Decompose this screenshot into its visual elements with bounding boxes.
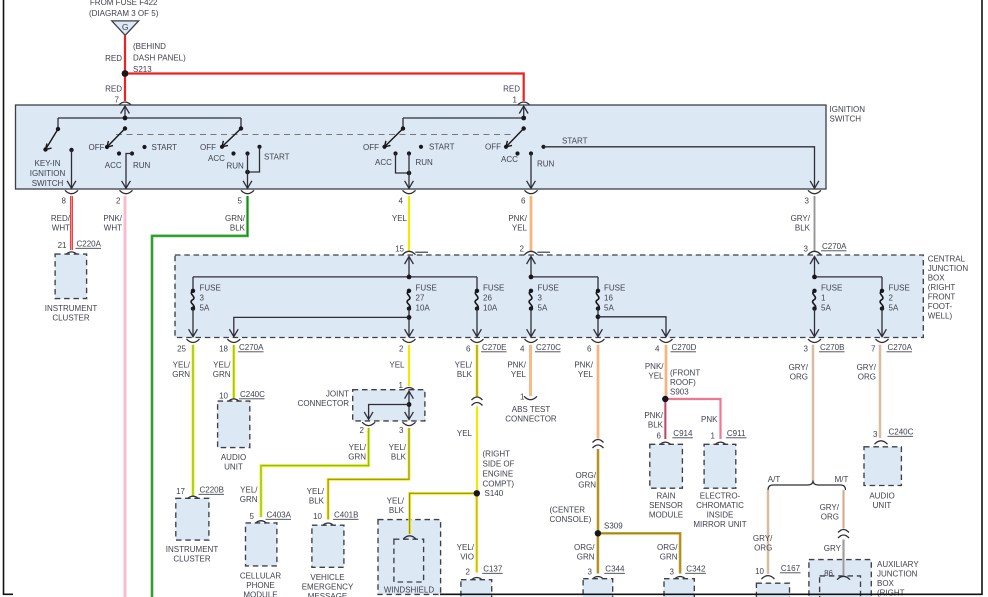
wire PNK/YEL pin 6 down to break (597, 345, 600, 439)
wire YEL/VIO S140 to C137 (475, 493, 478, 572)
wire ORG/GRN break to splice S309 (597, 449, 600, 533)
auxiliary junction box outer (809, 560, 871, 597)
pin 8 cup (65, 190, 78, 193)
CJB pin 2 arch (525, 251, 538, 254)
svg-text:10: 10 (755, 567, 764, 576)
svg-text:YEL/: YEL/ (457, 543, 475, 552)
svg-text:7: 7 (871, 345, 876, 354)
svg-text:G: G (122, 22, 129, 32)
switch 2 START contact (142, 145, 146, 149)
key-in switch lower contact dot (43, 147, 47, 151)
label INSTRUMENT CLUSTER (45, 304, 98, 323)
bus A left drop (57, 118, 59, 129)
svg-text:JUNCTION: JUNCTION (928, 264, 969, 273)
svg-text:PNK/: PNK/ (507, 361, 526, 370)
svg-text:6: 6 (521, 197, 526, 206)
svg-text:RUN: RUN (416, 158, 434, 167)
aux junction box pin arch (837, 576, 850, 579)
wire YEL/BLK S140 to windshield (410, 493, 477, 534)
page left border (3, 0, 5, 595)
CJB bus A right drop to fuse 26 (476, 277, 478, 291)
pin 3 cup (808, 190, 821, 193)
svg-text:1: 1 (513, 96, 518, 105)
svg-text:3: 3 (588, 568, 593, 577)
svg-text:2: 2 (360, 426, 365, 435)
svg-text:YEL: YEL (578, 370, 594, 379)
switch 5 START contact (541, 145, 545, 149)
svg-text:5A: 5A (538, 304, 548, 313)
svg-text:25: 25 (177, 345, 186, 354)
pin 3 label and connector C342 (670, 568, 675, 577)
splice S213 (122, 70, 129, 77)
wire YEL/BLK pin 6 C270E down to break (476, 345, 479, 397)
svg-text:C240C: C240C (889, 428, 914, 437)
svg-text:C270C: C270C (536, 343, 561, 352)
bus B left drop (402, 118, 404, 129)
label AUDIO UNIT 2 (869, 492, 894, 511)
pin 7 entry arrow and feed (124, 106, 126, 118)
svg-text:GRN: GRN (348, 453, 366, 462)
svg-text:YEL/: YEL/ (349, 443, 367, 452)
svg-text:SWITCH: SWITCH (830, 114, 862, 123)
svg-text:3: 3 (399, 426, 404, 435)
power triangle G (112, 21, 139, 35)
switch 5 pivot dot (522, 126, 526, 130)
switch 2 pivot dot (123, 126, 127, 130)
svg-text:SWITCH: SWITCH (32, 179, 64, 188)
svg-text:START: START (152, 143, 178, 152)
splice S140 (474, 490, 480, 496)
audio unit 2 arch (875, 441, 888, 444)
svg-text:1: 1 (821, 294, 826, 303)
svg-text:C167: C167 (781, 564, 801, 573)
svg-text:COMPT): COMPT) (483, 479, 515, 488)
wire GRY/ORG A/T branch to C167 (767, 490, 770, 574)
switch 2 RUN contact (130, 151, 134, 155)
rain sensor module box (650, 444, 683, 488)
svg-text:OFF: OFF (363, 143, 379, 152)
svg-text:10: 10 (219, 392, 228, 401)
label ORG/GRN c344 (574, 543, 595, 562)
svg-text:BLK: BLK (389, 506, 405, 515)
C342 component box (664, 579, 694, 597)
svg-text:FUSE: FUSE (200, 284, 221, 293)
svg-text:INSTRUMENT: INSTRUMENT (166, 545, 219, 554)
svg-text:4: 4 (520, 345, 525, 354)
label ORG/GRN c342 (657, 543, 678, 562)
pin 5 cup (241, 190, 254, 193)
switch 4 ACC link (396, 154, 410, 174)
svg-text:INSIDE: INSIDE (707, 511, 734, 520)
wire YEL/GRN pin 18 to audio unit (232, 345, 235, 399)
svg-text:PNK/: PNK/ (508, 214, 527, 223)
C167 arch (762, 576, 775, 579)
svg-text:YEL: YEL (512, 224, 528, 233)
label YEL/GRN pin18 (213, 361, 232, 380)
joint connector pin 2 cup (362, 422, 375, 425)
wire ORG/GRN S309 to C342 (598, 533, 680, 573)
svg-text:FUSE: FUSE (889, 284, 910, 293)
sub-bus to pin 18 (234, 317, 409, 336)
label ORG/GRN (576, 471, 597, 490)
svg-text:INSTRUMENT: INSTRUMENT (45, 304, 98, 313)
wire GRY/ORG pin 7 C270A to audio unit (879, 345, 882, 438)
fuse F16 sub-bus junction dot (596, 314, 601, 319)
splice S309 dot overlay (595, 530, 601, 536)
splice S903 (662, 396, 668, 402)
svg-text:ORG: ORG (790, 373, 808, 382)
CJB pin 3 arch (808, 251, 821, 254)
svg-text:ABS TEST: ABS TEST (512, 405, 551, 414)
inline connector break on GRY wire (838, 530, 849, 539)
svg-text:MODULE: MODULE (243, 591, 277, 597)
svg-text:PNK/: PNK/ (103, 214, 122, 223)
inline connector break on YEL wire (472, 397, 483, 406)
svg-text:3: 3 (670, 568, 675, 577)
fuse F3b (FUSE 3 5A) (529, 289, 533, 311)
wire YEL pin 4 to CJB pin 15 (408, 196, 410, 252)
svg-text:FUSE: FUSE (483, 284, 504, 293)
label PNK/BLK (644, 411, 663, 430)
joint connector junction dot (407, 402, 412, 407)
switch 2 OFF contact (105, 145, 109, 149)
svg-text:DASH PANEL): DASH PANEL) (133, 54, 186, 63)
label PNK/YEL pin6 (508, 214, 527, 233)
svg-text:GRN: GRN (172, 370, 190, 379)
pin 21 label and connector C220A (58, 241, 67, 250)
svg-text:ORG: ORG (821, 513, 839, 522)
switch 4 pivot dot (401, 126, 405, 130)
CJB bus B (531, 276, 598, 278)
svg-text:OFF: OFF (200, 143, 216, 152)
switch 3 START link (248, 147, 260, 172)
wire GRN/BLK pin 5 down-left off page (152, 196, 248, 597)
svg-text:WINDSHIELD: WINDSHIELD (384, 585, 434, 594)
page bottom border (right part) (440, 593, 982, 595)
pin 3 label and connector C344 (588, 568, 593, 577)
switch 5 output wire to pin 6 (530, 154, 532, 189)
wire GRY/ORG pin 3 C270B down to split (812, 345, 815, 481)
fuse F16 (FUSE 16 5A) (596, 289, 600, 311)
svg-text:BLK: BLK (648, 421, 664, 430)
svg-text:IGNITION: IGNITION (830, 105, 866, 114)
junction dot pin 1 bus (521, 116, 526, 121)
svg-text:BLK: BLK (795, 224, 811, 233)
svg-text:3: 3 (805, 197, 810, 206)
svg-text:AUDIO: AUDIO (869, 492, 894, 501)
svg-text:OFF: OFF (485, 143, 501, 152)
wire GRY/BLK pin 3 to CJB pin 3 (813, 196, 816, 252)
instrument cluster arch (65, 252, 78, 255)
cellular phone module box (246, 523, 277, 566)
CJB pin 2 bottom cup (403, 339, 416, 342)
svg-text:BLK: BLK (457, 370, 473, 379)
svg-text:WHT: WHT (52, 224, 70, 233)
switch 4 output wire to pin 4 (408, 154, 410, 189)
svg-text:6: 6 (466, 345, 471, 354)
cellular phone module arch (255, 521, 268, 524)
svg-text:CELLULAR: CELLULAR (240, 572, 282, 581)
wire YEL pin 2 to joint connector (408, 345, 410, 386)
svg-text:GRY/: GRY/ (789, 363, 809, 372)
splice S309 (595, 530, 601, 536)
wire PNK/YEL pin 6 to CJB pin 2 (530, 196, 533, 252)
switch 5 OFF contact (504, 145, 508, 149)
svg-text:MIRROR UNIT: MIRROR UNIT (693, 520, 746, 529)
svg-text:YEL/: YEL/ (387, 497, 405, 506)
svg-text:FUSE: FUSE (416, 284, 437, 293)
fuse F26 output to pin 6 C270E (476, 309, 478, 337)
wire GRY break to aux junction box (842, 540, 845, 576)
switch 4 RUN contact (407, 151, 411, 155)
mirror unit arch (714, 442, 727, 445)
label YEL/GRN cellular (240, 486, 259, 505)
svg-text:C403A: C403A (267, 511, 292, 520)
label JOINT CONNECTOR (298, 390, 350, 409)
svg-text:M/T: M/T (835, 475, 849, 484)
label PNK/YEL c270d (645, 362, 664, 381)
svg-text:VIO: VIO (460, 553, 474, 562)
svg-text:AUXILIARY: AUXILIARY (877, 560, 919, 569)
CJB bus A left drop to fuse 3 (192, 277, 194, 291)
svg-text:SIDE OF: SIDE OF (483, 459, 515, 468)
svg-text:ORG/: ORG/ (576, 471, 597, 480)
svg-text:(CENTER: (CENTER (550, 506, 586, 515)
svg-text:C342: C342 (686, 565, 706, 574)
label YEL/BLK jc3 (389, 443, 407, 462)
svg-text:GRN: GRN (240, 495, 258, 504)
svg-text:CONNECTOR: CONNECTOR (505, 415, 557, 424)
label KEY-IN IGNITION SWITCH (30, 159, 66, 188)
switch 4 lever (385, 129, 404, 147)
electro-chromatic mirror box (704, 444, 736, 488)
key-in switch output contact dot (69, 148, 73, 152)
pin 10 label and connector C240C (219, 392, 228, 401)
label ELECTRO-CHROMATIC INSIDE MIRROR UNIT (693, 492, 746, 530)
label (BEHIND DASH PANEL) S213 (133, 42, 186, 74)
svg-text:RED: RED (503, 85, 520, 94)
wire YEL/GRN joint connector pin 2 to cellular phone module (261, 428, 369, 517)
junction dot pin 7 bus (123, 116, 128, 121)
C342 arch (674, 577, 687, 580)
svg-text:MODULE: MODULE (649, 511, 683, 520)
switch 3 RUN contact (245, 151, 249, 155)
wire RED from triangle to splice S213 (124, 35, 126, 73)
vehicle emergency module box (312, 525, 344, 567)
fuse F16 output to pin 6 (597, 309, 599, 337)
wire RED S213 across to ignition switch pin 1 (125, 74, 524, 102)
svg-text:GRN: GRN (578, 481, 596, 490)
svg-text:15: 15 (395, 245, 404, 254)
CJB pin 3 bottom cup and C270B (808, 339, 821, 342)
switch 3 lever (222, 129, 241, 147)
svg-text:5: 5 (238, 197, 243, 206)
svg-text:GRN: GRN (660, 553, 678, 562)
svg-text:RED: RED (105, 85, 122, 94)
svg-text:VEHICLE: VEHICLE (310, 573, 344, 582)
svg-text:3: 3 (538, 294, 543, 303)
svg-text:ACC: ACC (375, 158, 392, 167)
switch 3 OFF contact (220, 145, 224, 149)
CJB pin 15 arch (403, 251, 416, 254)
switch 5 lever (506, 129, 524, 147)
svg-text:2: 2 (889, 294, 894, 303)
svg-text:FUSE: FUSE (604, 284, 625, 293)
label RED/WHT (51, 214, 71, 233)
svg-text:CHROMATIC: CHROMATIC (696, 501, 744, 510)
pin 5 label and connector C403A (250, 512, 255, 521)
svg-text:YEL: YEL (389, 361, 405, 370)
switch 4 junction dot (407, 171, 412, 176)
svg-text:RAIN: RAIN (656, 492, 675, 501)
svg-text:PNK/: PNK/ (644, 411, 663, 420)
label YEL/VIO (457, 543, 475, 562)
audio unit arch (227, 399, 240, 402)
label YEL/GRN jc2 (348, 443, 367, 462)
label INSTRUMENT CLUSTER 2 (166, 545, 219, 564)
svg-text:5A: 5A (889, 304, 899, 313)
A/T M/T split brace (768, 481, 846, 491)
windshield inner box (394, 539, 424, 582)
label GRY/ORG c270b (789, 363, 809, 382)
svg-text:6: 6 (587, 345, 592, 354)
svg-text:FRONT: FRONT (928, 293, 956, 302)
fuse F3 (FUSE 3 5A) (191, 289, 195, 311)
switch 3 pivot dot (239, 126, 243, 130)
wire PNK/WHT pin 2 down off page (124, 196, 127, 597)
svg-text:C344: C344 (605, 565, 625, 574)
fuse F27 sub-bus junction dot (407, 315, 412, 320)
svg-text:GRY: GRY (824, 544, 842, 553)
pin 2 cup (120, 190, 133, 193)
CJB pin 25 cup (187, 339, 200, 342)
svg-text:ROOF): ROOF) (670, 378, 696, 387)
svg-text:3: 3 (200, 294, 205, 303)
svg-text:C270E: C270E (482, 343, 506, 352)
label PNK/YEL pin6b (574, 361, 593, 380)
label (RIGHT SIDE OF ENGINE COMPT) S140 (483, 449, 515, 498)
svg-text:START: START (264, 153, 290, 162)
label AUXILIARY JUNCTION BOX (RIGHT (877, 560, 919, 597)
svg-text:86: 86 (824, 569, 833, 578)
pin 1 entry arrow and feed (523, 106, 525, 118)
C137 component box (461, 580, 492, 597)
pin 1 arch (517, 102, 530, 105)
svg-text:A/T: A/T (768, 475, 781, 484)
pin 2 label and connector C137 (466, 568, 471, 577)
CJB bus B right drop to fuse 16 (597, 277, 599, 291)
C344 arch (591, 577, 604, 580)
fuse F26 (FUSE 26 10A) (475, 289, 479, 311)
wire RED/WHT pin 8 to instrument cluster (70, 196, 73, 250)
switch 5 labels (485, 137, 588, 169)
svg-text:(DIAGRAM 3 OF 5): (DIAGRAM 3 OF 5) (89, 9, 159, 18)
label YEL/BLK windshield (387, 497, 405, 516)
svg-text:2: 2 (466, 568, 471, 577)
svg-text:WHT: WHT (104, 224, 122, 233)
label YEL/BLK vem (307, 487, 325, 506)
svg-text:ORG: ORG (754, 544, 772, 553)
svg-text:C911: C911 (727, 429, 746, 438)
svg-text:5A: 5A (200, 304, 210, 313)
svg-text:ACC: ACC (105, 161, 122, 170)
svg-text:EMERGENCY: EMERGENCY (302, 583, 354, 592)
svg-text:18: 18 (219, 345, 228, 354)
audio unit box (218, 401, 250, 448)
switch 5 ACC contact (515, 151, 519, 155)
svg-text:10A: 10A (416, 304, 431, 313)
svg-text:GRY/: GRY/ (820, 503, 840, 512)
svg-text:PNK: PNK (701, 415, 718, 424)
label (CENTER CONSOLE) S309 (550, 506, 624, 531)
switch 2 output wire to pin 2 (126, 154, 132, 189)
svg-text:27: 27 (416, 294, 425, 303)
ABS pin 1 cup (524, 396, 537, 399)
label GRN/BLK (225, 214, 246, 233)
svg-text:RUN: RUN (227, 162, 245, 171)
svg-text:PNK/: PNK/ (645, 362, 664, 371)
CJB pin 2 entry (530, 257, 532, 277)
pin 10 label and connector C167 (755, 567, 764, 576)
svg-text:FOOT-: FOOT- (928, 302, 953, 311)
CJB bus A junction dot (407, 275, 412, 280)
svg-text:CLUSTER: CLUSTER (173, 555, 211, 564)
page right border (981, 0, 983, 595)
svg-text:ORG/: ORG/ (574, 543, 595, 552)
svg-text:FROM FUSE F422: FROM FUSE F422 (90, 0, 158, 7)
CJB pin 6 cup and C270E (471, 339, 484, 342)
svg-text:RED/: RED/ (51, 214, 71, 223)
svg-text:4: 4 (399, 197, 404, 206)
switch 5 START wire to pin 3 (544, 147, 815, 189)
pin 4 cup (403, 190, 416, 193)
C344 component box (583, 579, 613, 597)
svg-text:(FRONT: (FRONT (670, 369, 700, 378)
svg-text:CLUSTER: CLUSTER (52, 314, 90, 323)
key-in switch pivot dot (56, 127, 60, 131)
splice S213 dot overlay (122, 70, 129, 77)
svg-text:C401B: C401B (334, 511, 358, 520)
CJB bus C junction dot (812, 275, 817, 280)
fuse F3b output to pin 4 C270C (530, 309, 532, 337)
switch 5 RUN contact (529, 151, 533, 155)
svg-text:BLK: BLK (309, 497, 325, 506)
svg-text:KEY-IN: KEY-IN (35, 159, 61, 168)
bus A horizontal (pin 7) (58, 117, 241, 119)
svg-text:FUSE: FUSE (538, 284, 559, 293)
windshield inner arch (403, 536, 416, 539)
label YEL/GRN pin25 (172, 361, 191, 380)
wire GRY/ORG M/T branch to break (842, 490, 845, 529)
label GRY/ORG c270a (857, 363, 877, 382)
svg-text:26: 26 (483, 294, 492, 303)
vehicle emergency module arch (322, 523, 335, 526)
label VEHICLE EMERGENCY MESSAGE (302, 573, 354, 597)
C167 component box (756, 583, 789, 597)
fuse F2 (FUSE 2 5A) (880, 289, 884, 311)
fuse F1 (FUSE 1 5A) (812, 289, 816, 311)
CJB bus B junction dot (529, 275, 534, 280)
splice S140 dot overlay (474, 490, 480, 496)
wire PNK/BLK S903 to rain sensor module (664, 399, 667, 439)
label GRY/ORG at (753, 534, 773, 553)
svg-text:(RIGHT: (RIGHT (877, 589, 905, 597)
svg-text:3: 3 (804, 245, 809, 254)
svg-text:YEL: YEL (511, 370, 527, 379)
CJB pin 4 cup and C270C (525, 339, 538, 342)
svg-text:1: 1 (711, 432, 716, 441)
switch 4 labels (363, 143, 455, 168)
